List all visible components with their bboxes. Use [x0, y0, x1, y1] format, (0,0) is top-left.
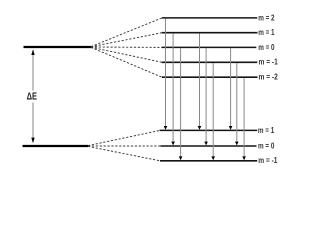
svg-text:m = 1: m = 1	[258, 28, 275, 37]
transition arrow m=0 to m=0	[204, 48, 208, 145]
split level m=2 (upper)	[162, 17, 257, 19]
lower unsplit level E1 (left)	[23, 145, 89, 147]
split level m=0 (upper)	[162, 46, 256, 48]
split level m=-2 (upper)	[162, 76, 258, 78]
svg-text:m = 0: m = 0	[258, 43, 275, 52]
split level m=-1 (upper)	[162, 61, 257, 63]
transition arrow m=1 to m=0	[171, 33, 175, 145]
svg-text:m = 1: m = 1	[258, 126, 275, 135]
svg-text:m = 2: m = 2	[258, 13, 275, 22]
transition arrow m=0 to m=1	[229, 48, 233, 130]
dashed fan line upper to m=-1	[91, 47, 162, 62]
delta-E arrow lower segment	[32, 103, 34, 143]
transition arrow m=0 to m=-1	[179, 48, 183, 160]
transition arrow m=-2 to m=-1	[242, 78, 246, 160]
transition arrow m=-1 to m=-1	[211, 63, 215, 160]
delta-E arrowhead up	[31, 49, 34, 55]
svg-text:m = -1: m = -1	[258, 156, 278, 165]
delta-E arrow upper segment	[32, 50, 34, 91]
transition arrow m=1 to m=1	[198, 33, 202, 129]
dashed fan line upper to m=0	[91, 46, 162, 48]
svg-text:m = 0: m = 0	[258, 141, 275, 150]
split level m=-1 (lower)	[160, 160, 257, 162]
split level m=1 (upper)	[162, 32, 258, 34]
dashed fan line lower to m=-1	[88, 146, 160, 160]
svg-text:m = -2: m = -2	[259, 73, 279, 82]
upper unsplit level E2 (left)	[24, 46, 92, 48]
delta-E arrowhead down	[31, 138, 34, 144]
split level m=0 (lower)	[161, 145, 257, 147]
dashed fan line upper to m=-2	[91, 47, 162, 77]
dashed fan line upper to m=1	[91, 33, 162, 47]
dashed fan line lower to m=1	[88, 130, 160, 145]
transition arrow m=-1 to m=0	[235, 63, 239, 145]
dashed fan line upper to m=2	[91, 18, 162, 47]
svg-text:ΔE: ΔE	[27, 92, 38, 103]
split level m=1 (lower)	[160, 129, 258, 131]
dashed fan line lower to m=0	[88, 145, 161, 147]
transition arrow m=2 to m=1	[164, 19, 168, 130]
svg-text:m = -1: m = -1	[259, 58, 279, 67]
